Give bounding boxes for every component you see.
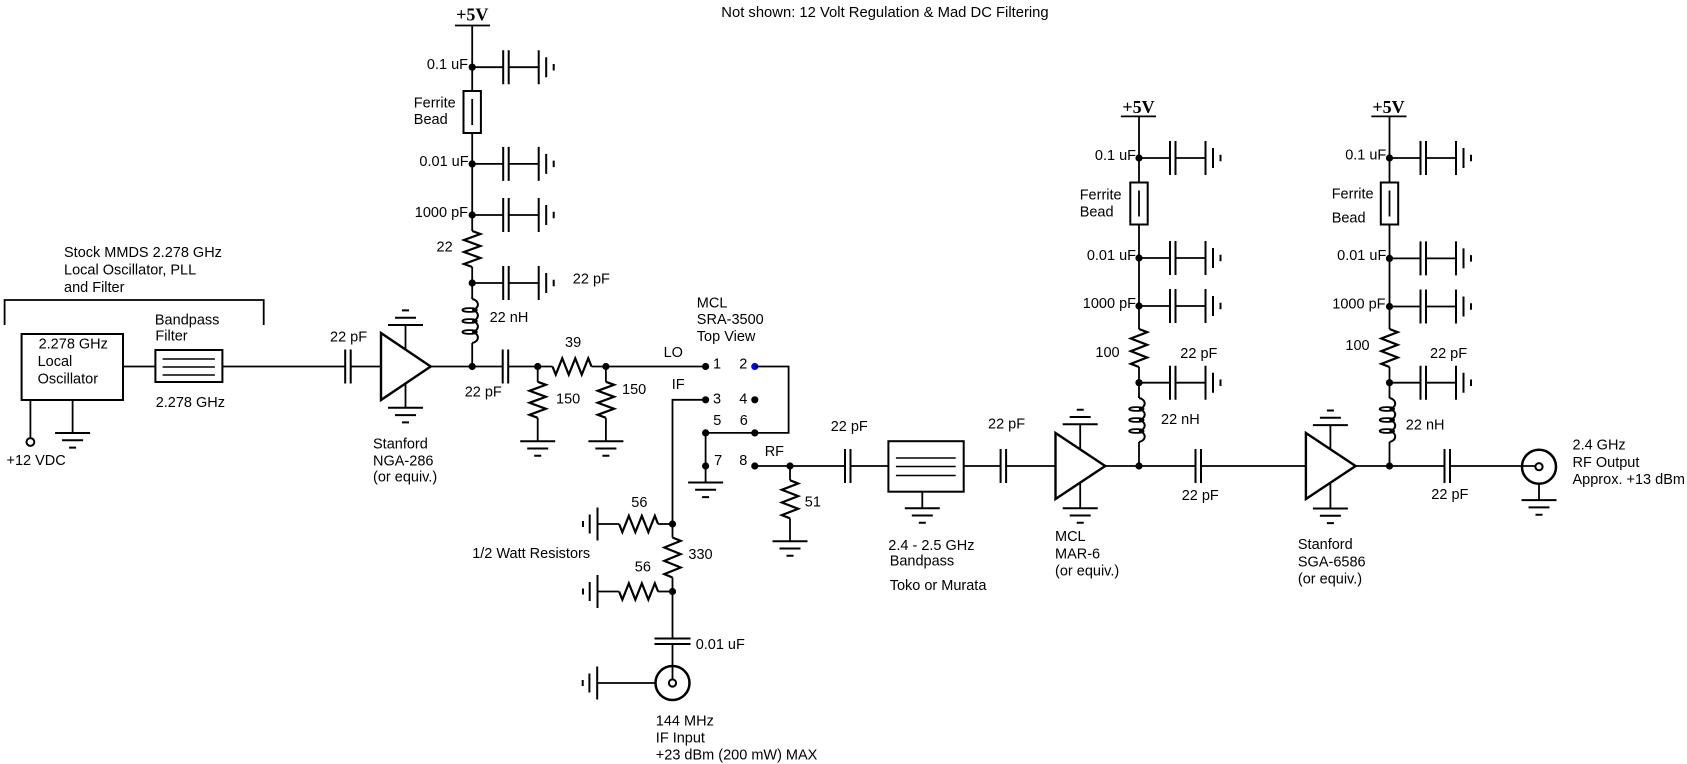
capacitor 1000 pF (SGA chain) [1421,290,1427,324]
wire [472,282,539,284]
capacitor 0.01 uF (MAR-6 chain) [1170,241,1176,275]
svg-text:IF Input: IF Input [656,731,705,747]
wire R3 to ground [605,418,607,441]
wire L2 to RF line [1138,442,1140,466]
capacitor 0.1 uF (MAR-6 chain) [1170,141,1176,175]
ground [1313,411,1348,426]
svg-text:22 nH: 22 nH [1161,412,1200,428]
wire [1139,157,1206,159]
wire U2 out to C2 [431,366,503,368]
wire ground stub [72,400,74,433]
svg-text:Bandpass: Bandpass [890,554,955,570]
node U4 bias [1135,462,1142,469]
svg-text:22 pF: 22 pF [465,385,502,401]
node U5 bias [1386,462,1393,469]
node 0.1 uF tap [469,64,476,71]
wire +5V bar [1371,115,1406,117]
wire pin 3 IF line [673,400,706,524]
ground [1206,241,1221,275]
resistor R9 56 [619,583,658,599]
node RF [786,462,793,469]
svg-text:22 pF: 22 pF [831,419,868,435]
svg-text:4: 4 [739,392,747,408]
svg-text:22 pF: 22 pF [573,272,610,288]
wire R11 to L3 [1389,367,1391,396]
ground [588,441,623,456]
ferrite bead FB3 [1381,183,1398,225]
capacitor C2 22 pF [503,350,509,384]
svg-text:22 pF: 22 pF [330,330,367,346]
ground [1313,509,1348,524]
svg-text:(or equiv.): (or equiv.) [1298,572,1362,588]
node 22 pF tap [1135,379,1142,386]
svg-text:IF: IF [672,377,685,393]
capacitor C5 22 pF [1001,449,1007,483]
svg-text:and Filter: and Filter [64,280,125,296]
wire +5V bar [455,25,490,27]
svg-text:1/2 Watt Resistors: 1/2 Watt Resistors [472,546,590,562]
node 0.1 uF tap [1135,154,1142,161]
bandpass filter FL1 [155,350,222,382]
ground [583,575,598,608]
svg-text:0.01 uF: 0.01 uF [1087,248,1136,264]
svg-text:Local Oscillator, PLL: Local Oscillator, PLL [64,263,196,279]
bracket over LO section [5,300,264,325]
svg-text:Filter: Filter [155,329,187,345]
wire L3 to RF line [1389,442,1391,466]
wire R10 to L2 [1138,367,1140,396]
ground [1522,500,1557,515]
svg-text:51: 51 [805,494,821,510]
pin 7 [702,462,709,469]
ground [55,433,90,448]
inductor L1 22 nH [472,297,478,343]
resistor R1 39 [553,358,592,374]
node pad in [534,363,541,370]
capacitor 22 pF (MAR-6 chain) [1170,366,1176,400]
ground [388,310,423,325]
ground [1206,366,1221,400]
resistor R8 330 [664,538,680,578]
svg-text:SGA-6586: SGA-6586 [1298,555,1366,571]
wire R2 to ground [537,418,539,441]
ground [905,508,940,523]
wire bead to R10 [1138,225,1140,330]
svg-text:Bead: Bead [414,112,448,128]
svg-text:6: 6 [740,413,748,429]
wire +12V stub [29,400,31,438]
pin 2 [751,363,758,370]
wire FL2 ground stem [921,492,923,509]
resistor R10 100 [1131,329,1147,367]
wire J2 ground stem [1538,483,1540,500]
svg-text:MAR-6: MAR-6 [1055,547,1100,563]
resistor R3 150 [598,382,614,418]
wire bead to R4 [471,133,473,231]
wire to R2 [537,367,539,382]
wire U4 out to C6 [1105,465,1195,467]
wire LO to filter [123,366,155,368]
node 0.01 uF tap [1386,255,1393,262]
ground [773,541,808,556]
wire [1390,157,1457,159]
oscillator U1 2.278 GHz Local Oscillator [22,334,123,400]
svg-text:100: 100 [1345,338,1369,354]
wire connector shield ground [597,682,655,684]
svg-text:0.01 uF: 0.01 uF [1337,248,1386,264]
svg-text:56: 56 [635,560,651,576]
node 22 pF tap [469,279,476,286]
svg-text:22 nH: 22 nH [1406,418,1445,434]
ground [520,441,555,456]
svg-text:LO: LO [664,345,683,361]
svg-text:0.1 uF: 0.1 uF [1095,148,1136,164]
pin 3 (IF) [702,396,709,403]
svg-text:SRA-3500: SRA-3500 [697,312,764,328]
ground [583,508,598,541]
ferrite bead FB1 [464,91,481,133]
op-amp U4 MCL MAR-6 [1056,433,1106,499]
svg-text:39: 39 [565,335,581,351]
svg-text:RF: RF [765,444,784,460]
svg-text:+5V: +5V [456,5,488,25]
wire U5 out to C7 [1356,465,1445,467]
svg-text:22 nH: 22 nH [490,310,529,326]
svg-text:3: 3 [713,392,721,408]
svg-text:2.278 GHz: 2.278 GHz [39,337,108,353]
svg-text:0.01 uF: 0.01 uF [419,154,468,170]
wire [1139,257,1206,259]
svg-text:Local: Local [38,354,73,370]
svg-text:Top View: Top View [697,329,756,345]
wire FL2 to C5 [964,465,1001,467]
ferrite bead FB2 [1130,183,1147,225]
ground [1456,241,1471,275]
pin 1 (LO) [702,363,709,370]
wire [1390,306,1457,308]
svg-text:(or equiv.): (or equiv.) [1055,564,1119,580]
capacitor 0.01 uF (NGA chain) [503,147,509,181]
svg-text:1000 pF: 1000 pF [415,205,468,221]
wire to R3 [605,367,607,382]
op-amp U5 Stanford SGA-6586 [1306,433,1356,499]
wire C6 to U5 [1201,465,1306,467]
wire U2 bottom ground stem [405,384,407,408]
svg-text:Not shown: 12 Volt Regulation: Not shown: 12 Volt Regulation & Mad DC F… [721,5,1048,21]
wire gnd to R9 [598,591,620,593]
svg-text:Oscillator: Oscillator [38,372,99,388]
wire gnd to R7 [598,523,620,525]
ground [1206,141,1221,175]
wire [1139,382,1206,384]
node pad out [602,363,609,370]
wire C3 to connector [672,644,674,680]
wire C1 to U2 [351,366,381,368]
wire U5 top ground stem [1329,425,1331,449]
svg-text:1: 1 [713,357,721,373]
svg-text:8: 8 [739,453,747,469]
wire R1 to LO pin 1 [592,366,706,368]
resistor R5 22 [464,231,480,267]
svg-text:Ferrite: Ferrite [1080,187,1122,203]
wire U5 bottom ground stem [1329,483,1331,509]
svg-text:Approx. +13 dBm: Approx. +13 dBm [1573,472,1685,488]
ground [539,198,554,232]
svg-text:56: 56 [631,495,647,511]
connector J1 IF input [656,666,690,700]
svg-text:1000 pF: 1000 pF [1332,297,1385,313]
svg-text:2.278 GHz: 2.278 GHz [156,395,225,411]
ground [539,266,554,300]
svg-text:150: 150 [556,392,580,408]
node IF pad bottom [669,588,676,595]
svg-text:2.4 - 2.5 GHz: 2.4 - 2.5 GHz [888,538,974,554]
node 1000 pF tap [1135,302,1142,309]
wire to R6 [789,466,791,480]
svg-text:2: 2 [739,357,747,373]
svg-text:(or equiv.): (or equiv.) [373,470,437,486]
wire filter to C1 [222,366,345,368]
wire +5V bar [1121,115,1156,117]
ground [1206,289,1221,323]
node 22 pF tap [1386,379,1393,386]
wire C7 to J2 [1450,465,1536,467]
svg-text:MCL: MCL [1055,529,1086,545]
wire [1390,257,1457,259]
node 1000 pF tap [1386,303,1393,310]
wire to C3 [672,592,674,639]
svg-text:5: 5 [713,413,721,429]
wire +5V down [1389,116,1391,182]
wire [1139,305,1206,307]
capacitor C6 22 pF [1196,449,1202,483]
node IF pad top [669,520,676,527]
ground [1456,366,1471,400]
wire U4 bottom ground stem [1079,483,1081,509]
op-amp U2 Stanford NGA-286 [381,333,431,400]
resistor R7 56 [619,516,658,532]
svg-text:2.4 GHz: 2.4 GHz [1573,438,1626,454]
wire R7 to node [658,523,672,525]
wire pin 8 RF out [755,465,845,467]
capacitor C4 22 pF [845,449,851,483]
connector J2 RF output [1522,450,1556,484]
wire [472,214,539,216]
svg-text:330: 330 [688,547,712,563]
capacitor 1000 pF (NGA chain) [503,198,509,232]
svg-text:144 MHz: 144 MHz [656,714,714,730]
wire U4 top ground stem [1079,424,1081,449]
svg-text:RF Output: RF Output [1573,455,1640,471]
wire [472,163,539,165]
pin 5 [702,429,709,436]
svg-text:100: 100 [1095,345,1119,361]
ground [688,483,723,498]
svg-text:22 pF: 22 pF [988,417,1025,433]
capacitor C7 22 pF [1445,449,1451,483]
svg-text:+5V: +5V [1122,97,1154,117]
wire C2 to R pad [508,366,552,368]
wire C4 to FL2 [851,465,889,467]
node LO bias injection [469,363,476,370]
svg-text:1000 pF: 1000 pF [1083,296,1136,312]
resistor R2 150 [530,382,546,418]
svg-text:Bead: Bead [1332,210,1366,226]
svg-text:+5V: +5V [1372,97,1404,117]
terminal +12 VDC [27,438,35,446]
svg-text:0.01 uF: 0.01 uF [696,637,745,653]
svg-text:Toko or Murata: Toko or Murata [890,578,988,594]
node 1000 pF tap [469,211,476,218]
capacitor 22 pF (SGA chain) [1421,366,1427,400]
wire R6 to ground [789,518,791,541]
node 0.1 uF tap [1386,154,1393,161]
wire L1 to LO line [471,343,473,367]
wire pin 5 to pin 7 [705,433,707,466]
svg-text:Stanford: Stanford [1298,537,1353,553]
svg-text:Stanford: Stanford [373,437,428,453]
svg-text:Bandpass: Bandpass [155,312,220,328]
wire pin 7 to ground [705,466,707,483]
capacitor C3 0.01 uF [655,639,691,645]
svg-text:7: 7 [714,453,722,469]
svg-text:22 pF: 22 pF [1430,346,1467,362]
ground [539,50,554,84]
node 0.01 uF tap [1135,254,1142,261]
capacitor 0.1 uF (NGA chain) [503,50,509,84]
pin 6 [751,429,758,436]
svg-text:0.1 uF: 0.1 uF [1345,148,1386,164]
svg-text:+23 dBm (200 mW) MAX: +23 dBm (200 mW) MAX [656,748,818,764]
wire R8 leads [672,524,674,592]
capacitor 1000 pF (MAR-6 chain) [1170,289,1176,323]
pin 8 (RF) [751,462,758,469]
svg-text:Ferrite: Ferrite [1332,187,1374,203]
capacitor 0.1 uF (SGA chain) [1421,141,1427,175]
svg-text:0.1 uF: 0.1 uF [427,57,468,73]
wire bead to R11 [1389,225,1391,330]
wire pin 5 to pin 6 [706,432,755,434]
svg-text:22: 22 [437,240,453,256]
capacitor 22 pF (NGA chain) [503,266,509,300]
wire C5 to U4 [1006,465,1055,467]
svg-text:MCL: MCL [697,296,728,312]
resistor R6 51 [782,480,798,518]
svg-text:Bead: Bead [1080,205,1114,221]
svg-text:Stock MMDS 2.278 GHz: Stock MMDS 2.278 GHz [64,245,222,261]
ground [1456,141,1471,175]
inductor L2 22 nH [1139,396,1145,442]
svg-text:+12 VDC: +12 VDC [7,453,66,469]
wire +5V down [1138,116,1140,182]
svg-text:Ferrite: Ferrite [414,96,456,112]
ground [539,147,554,181]
ground [1063,508,1098,523]
wire pin 2 to pin 6 [755,367,789,433]
svg-text:22 pF: 22 pF [1182,488,1219,504]
ground [388,408,423,423]
ground [1063,410,1098,425]
svg-text:22 pF: 22 pF [1431,487,1468,503]
bandpass filter FL2 2.4-2.5 GHz [888,441,963,492]
wire R9 to node [658,591,672,593]
pin 4 [751,396,758,403]
node 0.01 uF tap [469,160,476,167]
capacitor C1 22 pF [345,350,351,384]
wire +5V down [471,26,473,92]
wire U2 top ground stem [405,325,407,350]
inductor L3 22 nH [1390,396,1396,442]
ground [583,667,598,700]
wire R5 to L1 [471,267,473,297]
svg-text:150: 150 [622,382,646,398]
capacitor 0.01 uF (SGA chain) [1421,241,1427,275]
wire [472,66,539,68]
svg-text:22 pF: 22 pF [1180,346,1217,362]
ground [1456,290,1471,324]
svg-text:NGA-286: NGA-286 [373,454,433,470]
wire [1390,382,1457,384]
resistor R11 100 [1381,329,1397,367]
